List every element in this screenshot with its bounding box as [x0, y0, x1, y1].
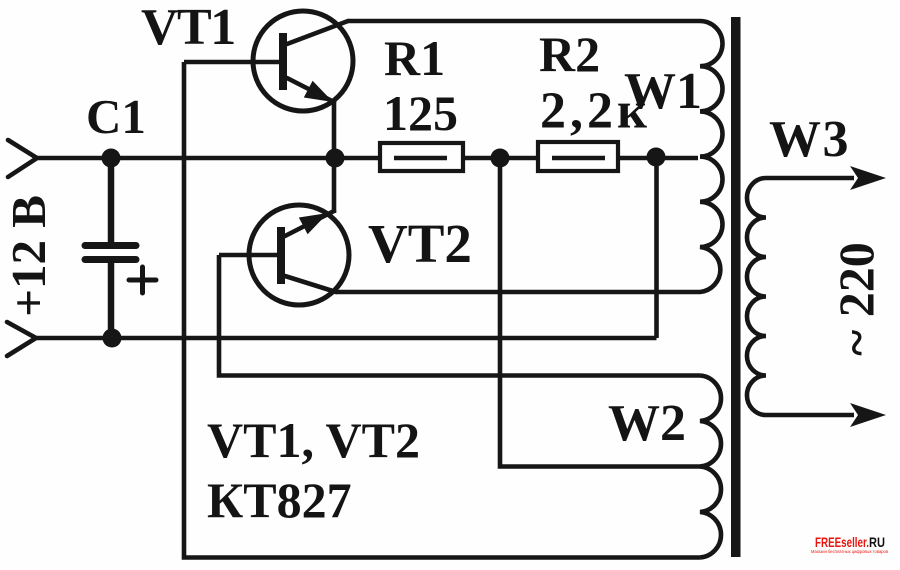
junction node: C1 top [102, 149, 121, 168]
transistor VT1 circle [253, 11, 353, 111]
svg-text:W3: W3 [769, 111, 850, 168]
svg-text:125: 125 [383, 85, 458, 141]
svg-text:Магазин бесплатных цифровых то: Магазин бесплатных цифровых товаров [811, 549, 889, 554]
transformer W2 winding [700, 376, 721, 558]
wire: emitters vertical link [332, 100, 337, 213]
logo FREEseller.RU [811, 534, 889, 554]
svg-text:C1: C1 [86, 89, 146, 144]
resistor R2 (2,2k) [538, 142, 618, 171]
transformer W1 winding with top wire from VT1 collector and bottom wire to VT2 collector [336, 21, 723, 292]
svg-text:VT2: VT2 [368, 213, 472, 274]
capacitor C1 plates [85, 246, 136, 260]
svg-text:VT1, VT2: VT1, VT2 [207, 412, 420, 468]
transistor VT2 emitter arrow [299, 213, 328, 234]
transformer core [731, 17, 741, 557]
transistor VT2 circle [249, 205, 349, 305]
input connector bottom (+12V) [7, 322, 36, 356]
wire: bottom rail [36, 336, 657, 341]
wire: VT2 base wire [219, 253, 278, 258]
wire: VT1 base wire [184, 60, 280, 65]
svg-text:R2: R2 [539, 26, 600, 82]
wire: R1-R2 junction down + wire to W2 tap [500, 158, 701, 467]
transistor VT2 collector slant [285, 276, 336, 292]
svg-text:КТ827: КТ827 [207, 472, 352, 528]
output arrow bottom (W3) [850, 403, 886, 427]
transistor VT2 emitter slant [285, 211, 334, 236]
svg-text:VT1: VT1 [141, 0, 235, 56]
transistor VT1 emitter arrow [304, 81, 333, 102]
wire: VT1 base vertical + bottom feedback wire to W2 [184, 62, 700, 558]
svg-text:W1: W1 [624, 63, 702, 120]
wire: bottom rail riser to R2 node [654, 158, 659, 338]
junction node: C1 bottom [103, 329, 122, 348]
wire: VT2 base vertical + wire to W2 top [219, 255, 700, 376]
svg-text:R1: R1 [384, 30, 445, 86]
transistor VT2 base bar [277, 227, 285, 284]
svg-text:+12 В: +12 В [1, 195, 56, 317]
junction node: R2 right / riser [647, 148, 666, 167]
svg-text:RU: RU [869, 534, 885, 550]
output arrow top (W3) [850, 166, 886, 190]
resistor R1 (125) [380, 143, 463, 171]
junction node: emitters on rail [326, 149, 345, 168]
input connector top (+12V) [8, 140, 37, 177]
svg-text:W2: W2 [608, 395, 686, 452]
svg-text:~ 220: ~ 220 [828, 242, 884, 356]
transistor VT1 collector slant [287, 21, 348, 44]
capacitor C1 polarity plus [129, 267, 156, 293]
svg-text:FREEseller.: FREEseller. [815, 534, 869, 550]
junction node: R1-R2 [491, 149, 510, 168]
transistor VT1 emitter slant [287, 78, 334, 102]
capacitor C1 leads [108, 158, 115, 338]
transformer W3 winding [747, 178, 854, 415]
transistor VT1 base bar [279, 33, 287, 90]
wire: middle +12V rail [37, 156, 698, 161]
